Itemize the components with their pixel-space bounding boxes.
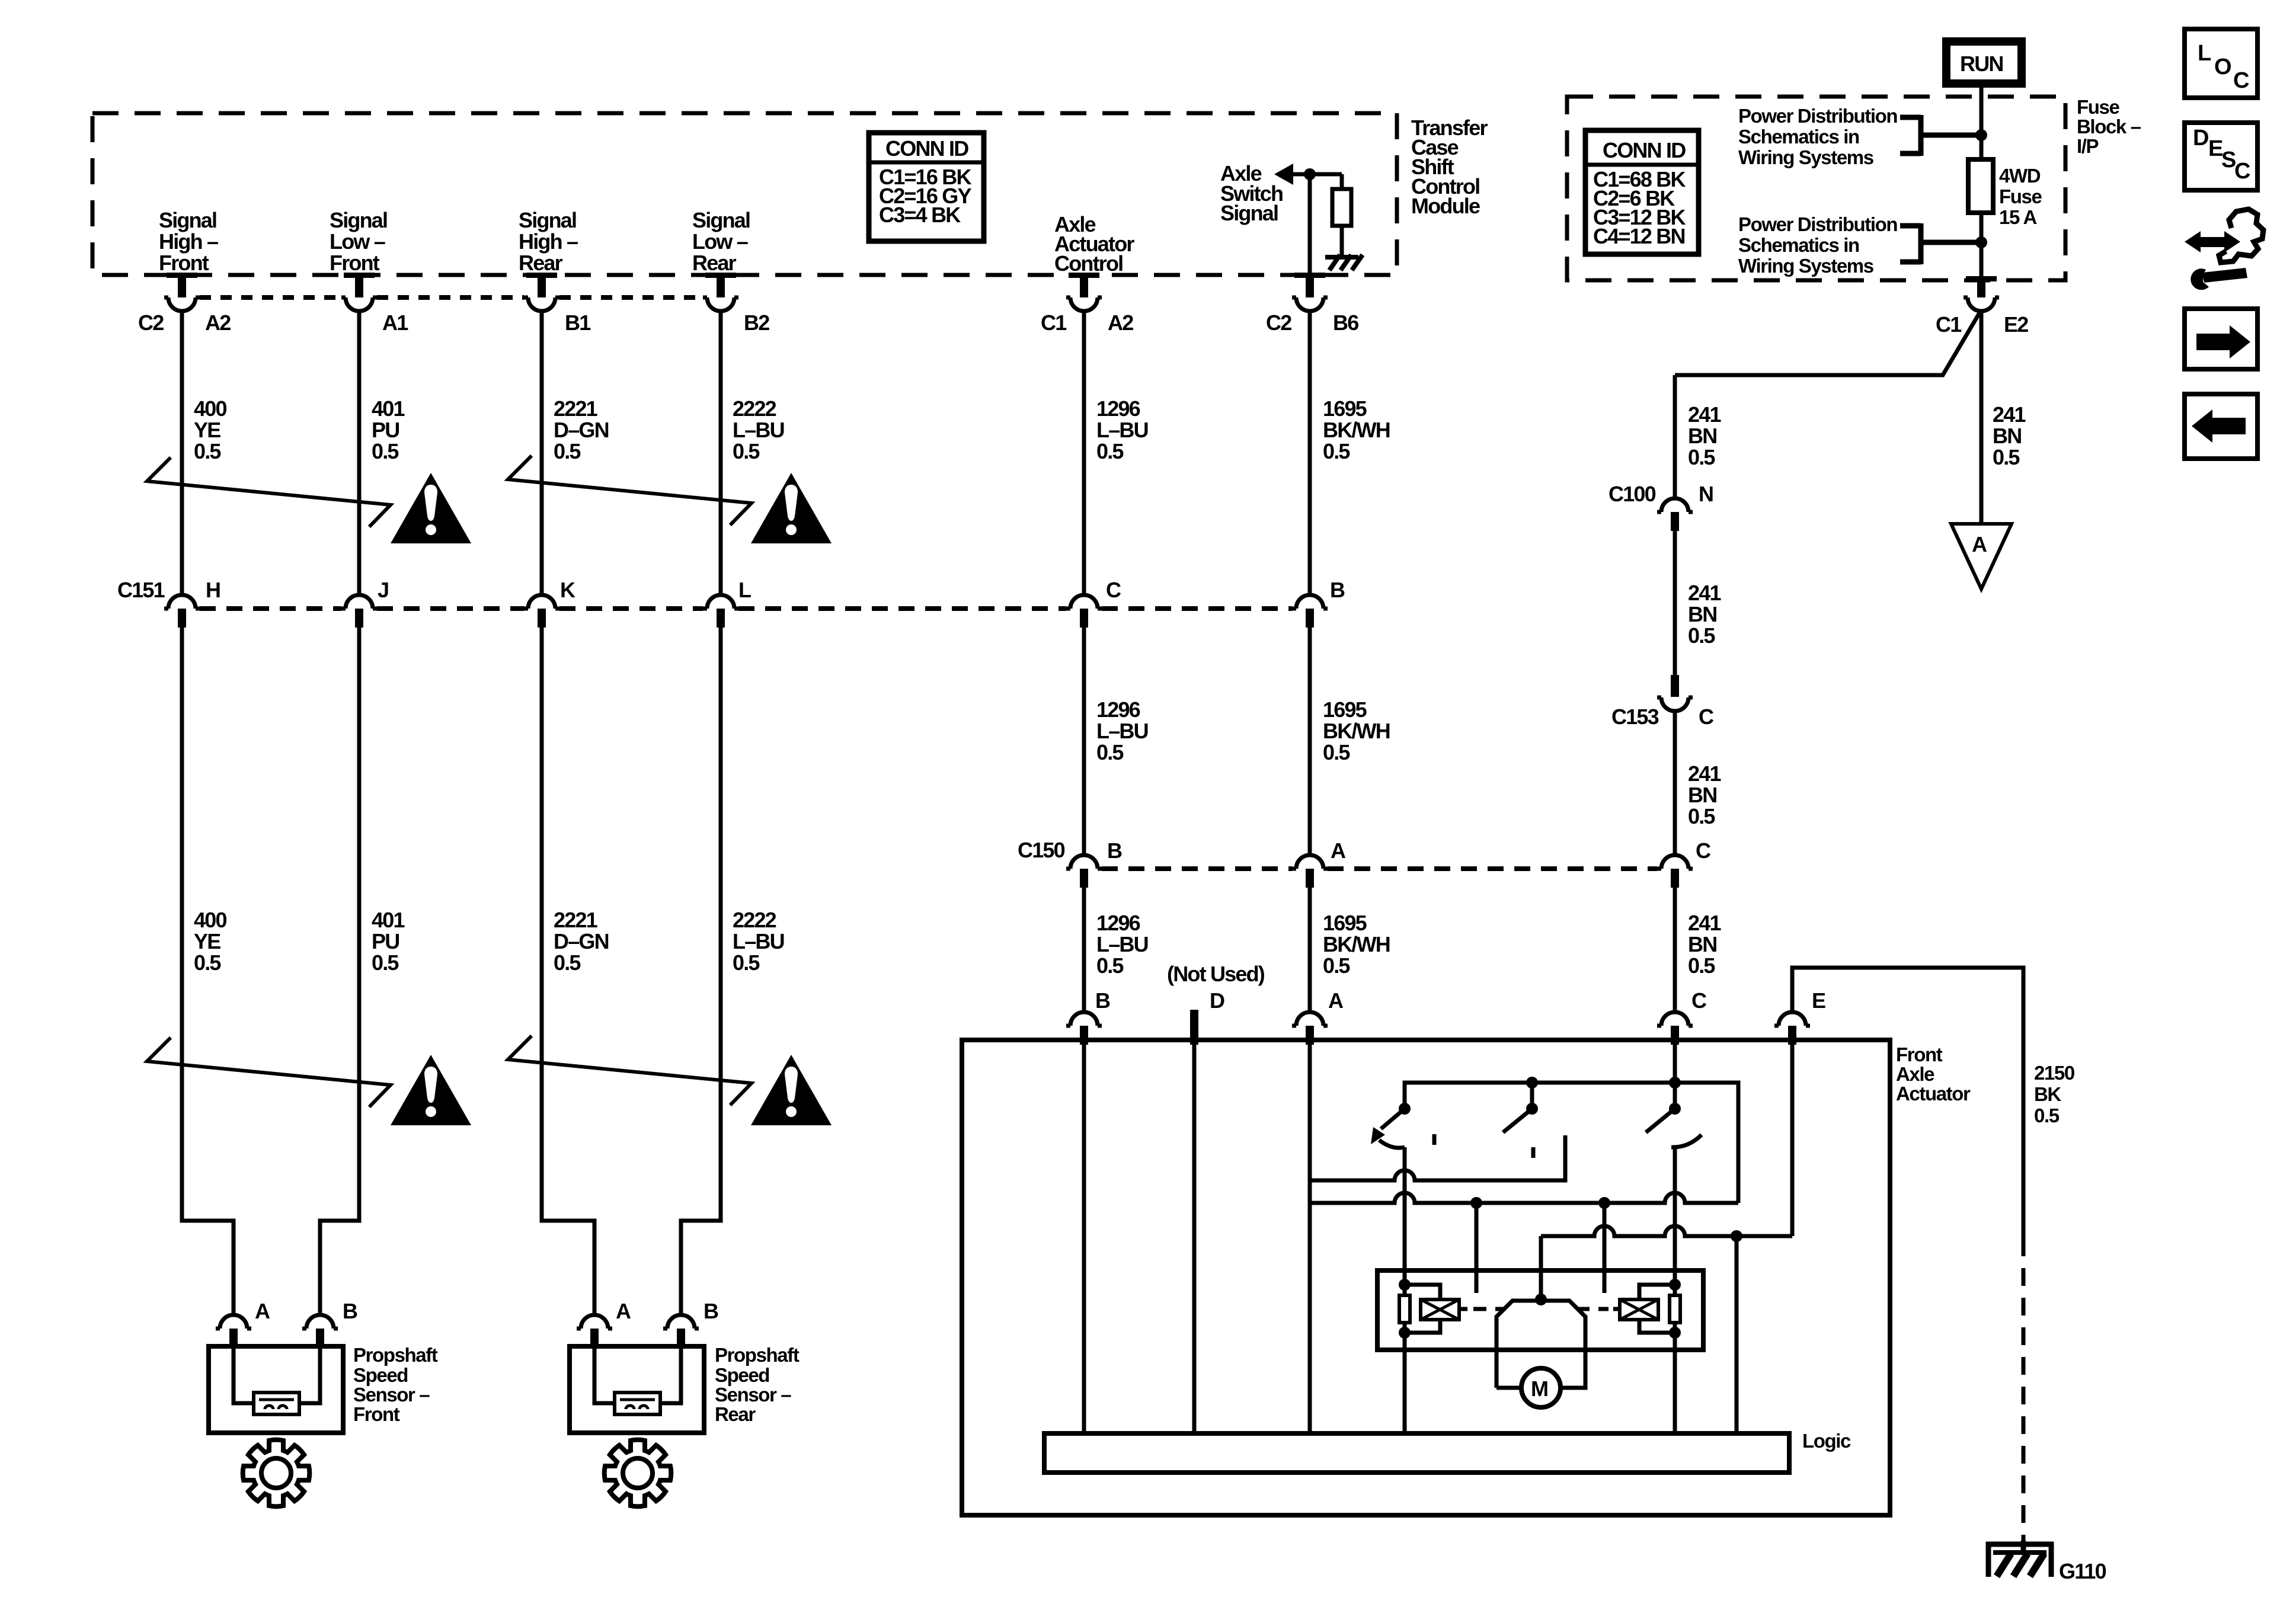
svg-text:1695: 1695 [1323,911,1367,935]
svg-text:C1: C1 [1041,311,1067,335]
svg-text:BN: BN [1688,932,1716,956]
svg-text:D: D [1210,988,1224,1013]
wire: RUN to fuse [1980,84,1984,159]
svg-text:YE: YE [194,418,220,442]
gear (front sensor) [243,1440,310,1507]
wire: C chain from connector to switch3 [1673,1045,1677,1109]
svg-text:A1: A1 [382,311,408,335]
svg-text:B: B [1107,838,1122,863]
warning triangle (upper left) [391,473,471,543]
wire: left solenoid to logic [1403,1333,1407,1433]
label: 4WD Fuse 15 A [1999,165,2042,228]
connector pin A (front sensor) [216,1315,251,1347]
propshaft speed sensor rear box [570,1346,704,1433]
wire: C153 to C150 [1673,711,1677,855]
warning triangle (upper right) [751,473,832,543]
label: 1695 BK/WH 0.5 (bottom) [1323,911,1390,978]
svg-text:PU: PU [372,418,399,442]
svg-text:Schematics in: Schematics in [1738,234,1859,256]
svg-text:Sensor –: Sensor – [715,1384,791,1406]
svg-text:0.5: 0.5 [1323,953,1350,978]
svg-text:Axle: Axle [1896,1063,1934,1085]
svg-text:Front: Front [159,251,209,275]
svg-text:M: M [1531,1377,1547,1401]
switch 2 (blade) [1503,1109,1532,1132]
svg-text:L–BU: L–BU [1096,418,1148,442]
svg-text:BK: BK [2034,1083,2061,1105]
wire: actuator B to logic [1082,1045,1086,1433]
svg-text:0.5: 0.5 [372,439,399,463]
wire w5 mid segment [1082,628,1086,855]
label: Power Distribution Schematics in Wiring Systems (lower) [1738,213,1897,277]
label: 241 BN 0.5 (second) [1688,581,1721,648]
label: Transfer Case Shift Control Module [1411,116,1488,218]
svg-text:L: L [2198,41,2211,66]
label: 1296 L-BU 0.5 (mid) [1096,697,1148,764]
svg-text:N: N [1699,482,1713,506]
svg-text:C: C [1691,988,1707,1013]
transfer case shift control module box [92,113,1397,275]
svg-text:Signal: Signal [159,208,216,232]
C150 row labels [1018,838,1711,863]
svg-text:Rear: Rear [692,251,737,275]
connector C151 pin C (w5) [1066,595,1102,628]
rear sensor internal wires [594,1347,616,1403]
wire: switch1 chain down [1403,1147,1407,1285]
svg-text:Rear: Rear [519,251,563,275]
svg-text:401: 401 [372,908,405,932]
gear hub (rear sensor) [623,1458,653,1488]
right solenoid assembly [1620,1279,1681,1339]
connector C151 pin H (w1) [164,595,200,628]
wire: diagonal from C1 E2 to 241 chain [1675,313,1980,375]
svg-text:BK/WH: BK/WH [1323,719,1390,743]
wire: bus3 branch to logic [1735,1236,1739,1433]
label: Signal Low - Rear [692,208,750,275]
svg-text:C2: C2 [138,311,164,335]
label: Propshaft Speed Sensor - Rear [715,1344,800,1425]
svg-text:Propshaft: Propshaft [353,1344,438,1366]
svg-text:1695: 1695 [1323,697,1367,722]
svg-text:401: 401 [372,396,405,421]
ground G110 [1986,1541,2054,1577]
wire: bus3 (with hops) [1541,1226,1792,1236]
svg-text:2150: 2150 [2034,1062,2074,1084]
wire: resistor to ground [1340,226,1344,256]
svg-text:C: C [2234,159,2250,184]
svg-text:241: 241 [1688,911,1721,935]
svg-text:A2: A2 [205,311,231,335]
connector C150 pin C (w7 241 chain) [1657,855,1693,888]
wire: switch2 feed stub [1530,1083,1534,1109]
icon: LOC box [2185,29,2257,98]
connector C150 pin A (w6) [1292,855,1328,888]
svg-text:2222: 2222 [733,396,776,421]
CONN ID table (fuse block) [1585,130,1699,254]
CONN ID table (module) [869,133,984,241]
wire w2 lower segment with jog to sensor pin B [320,628,359,1315]
svg-text:B: B [1095,988,1110,1013]
svg-text:BN: BN [1688,783,1716,807]
C151 row labels [117,578,1345,602]
C153 labels [1611,705,1714,729]
wire w1 lower segment with jog to sensor pin A [182,628,234,1315]
svg-text:0.5: 0.5 [1688,804,1715,828]
svg-text:C: C [2233,68,2249,93]
wire w7 to actuator C [1673,888,1677,1012]
gear (rear sensor) [605,1440,671,1507]
left solenoid assembly [1399,1279,1459,1339]
svg-text:A: A [1328,988,1344,1013]
svg-text:1296: 1296 [1096,911,1140,935]
svg-text:L–BU: L–BU [1096,719,1148,743]
twisted pair symbol (w1/w2 upper) [147,457,391,527]
gear hub (front sensor) [261,1458,291,1488]
svg-text:0.5: 0.5 [554,439,581,463]
dotted harness line C2 row [200,295,703,300]
dashed harness line C151 [200,606,1292,611]
fuse exit pin letters [1936,312,2028,337]
front sensor element [254,1393,299,1414]
wire w2 upper segment [357,311,362,595]
wire: axle switch signal down [1308,174,1312,274]
label: 241 BN 0.5 (third) [1688,761,1721,828]
svg-text:0.5: 0.5 [733,439,760,463]
label: 1296 L-BU 0.5 (bottom) [1096,911,1148,978]
wire: E2 down to triangle [1980,311,1984,524]
svg-text:CONN ID: CONN ID [885,136,968,161]
actuator pin letters [1095,988,1825,1013]
svg-text:J: J [378,578,388,602]
wire: bus1 with right drop [1405,1083,1738,1203]
wire: C100 to C153 [1673,531,1677,675]
svg-text:C2: C2 [1266,311,1291,335]
svg-text:High –: High – [519,229,578,254]
label: Signal High - Front [159,208,218,275]
svg-text:Rear: Rear [715,1403,756,1425]
svg-text:Sensor –: Sensor – [353,1384,430,1406]
icon: back arrow box [2185,394,2257,459]
svg-text:0.5: 0.5 [1096,439,1124,463]
svg-text:B: B [703,1299,718,1323]
svg-text:Signal: Signal [330,208,387,232]
wire: switch3 feed stub [1673,1083,1677,1109]
svg-text:C: C [1106,578,1121,602]
wire w6 upper segment [1308,311,1312,595]
svg-text:2221: 2221 [554,908,598,932]
connector pin B (actuator) [1066,1012,1102,1045]
front sensor pin letters [255,1299,357,1323]
svg-text:Signal: Signal [692,208,750,232]
svg-text:Block –: Block – [2077,116,2141,137]
ground (module internal) [1325,255,1363,270]
connector C100 pin N [1657,498,1693,531]
svg-text:K: K [560,578,575,602]
svg-text:Control: Control [1054,251,1123,276]
motor M [1521,1368,1560,1407]
svg-text:Power Distribution: Power Distribution [1738,105,1897,127]
logic box [1044,1433,1789,1473]
wire: branch down to resistor [1340,174,1344,189]
svg-text:Front: Front [330,251,380,275]
svg-text:Power Distribution: Power Distribution [1738,213,1897,235]
svg-text:241: 241 [1688,402,1721,427]
svg-text:C1: C1 [1936,312,1962,337]
svg-text:G110: G110 [2059,1559,2106,1583]
RUN box [1946,41,2022,84]
svg-text:Front: Front [353,1403,400,1425]
label: G110 [2059,1559,2106,1583]
wire: arrow to resistor branch [1292,172,1342,177]
label: Signal Low - Front [330,208,387,275]
connector C151 pin B (w6) [1292,595,1328,628]
svg-text:0.5: 0.5 [2034,1105,2060,1126]
svg-text:400: 400 [194,396,226,421]
label: Signal High - Rear [519,208,578,275]
svg-text:Low –: Low – [330,229,385,254]
svg-text:D: D [2193,126,2209,151]
svg-text:BK/WH: BK/WH [1323,932,1390,956]
svg-text:BK/WH: BK/WH [1323,418,1390,442]
svg-text:241: 241 [1688,581,1721,605]
svg-text:0.5: 0.5 [1688,953,1715,978]
svg-text:Logic: Logic [1802,1430,1851,1452]
svg-text:(Not Used): (Not Used) [1167,962,1265,986]
connector pin B (front sensor) [302,1315,338,1347]
label: Propshaft Speed Sensor - Front [353,1344,438,1425]
svg-text:L–BU: L–BU [733,929,784,953]
label: 1695 BK/WH 0.5 (mid) [1323,697,1390,764]
wire: fuse to connector [1980,213,1984,279]
wire: actuator A to logic [1308,1045,1312,1433]
svg-text:L–BU: L–BU [1096,932,1148,956]
label: Fuse Block - I/P [2077,96,2141,157]
connector pin C (actuator) [1657,1012,1693,1045]
svg-text:Propshaft: Propshaft [715,1344,800,1366]
svg-text:Front: Front [1896,1044,1943,1065]
label: 2221 D-GN 0.5 (upper) [554,396,609,463]
svg-text:B2: B2 [744,311,769,335]
label: 2222 L-BU 0.5 (upper) [733,396,784,463]
rear sensor element [615,1393,660,1414]
wire: bus3 to motor [1539,1236,1543,1299]
fuse block I/P dashed box [1567,97,2065,280]
wire w4 upper segment [719,311,723,595]
svg-text:0.5: 0.5 [372,950,399,975]
node: lower tap dot [1975,236,1987,248]
wire: bus2 (with hops) [1310,1193,1738,1203]
svg-text:0.5: 0.5 [194,439,221,463]
connector pin A1 (module exit w2) [341,273,377,311]
svg-text:C151: C151 [117,578,165,602]
label: 400 YE 0.5 (lower) [194,908,226,975]
connector pin B (rear sensor) [663,1315,699,1347]
svg-text:B6: B6 [1333,311,1358,335]
svg-text:0.5: 0.5 [1993,445,2020,469]
label: 2221 D-GN 0.5 (lower) [554,908,609,975]
svg-text:B1: B1 [565,311,591,335]
svg-text:B: B [343,1299,357,1323]
front sensor internal wires [234,1347,255,1403]
wire w5 to actuator B [1082,888,1086,1012]
label: Axle Switch Signal [1220,161,1283,225]
dashed mechanical linkage [1459,1307,1620,1311]
svg-text:15 A: 15 A [1999,206,2036,228]
label: Logic [1802,1430,1851,1452]
connector pin A (rear sensor) [577,1315,612,1347]
icon: repair info (arrows and wrench) [2185,209,2263,290]
connector C1 pin E2 (fuse block exit) [1964,276,1999,311]
svg-text:0.5: 0.5 [733,950,760,975]
connector C151 pin L (w4) [703,595,738,628]
connector pin A (actuator) [1292,1012,1328,1045]
svg-text:Speed: Speed [353,1364,408,1386]
svg-text:A: A [1972,532,1987,556]
motor housing tent [1496,1301,1585,1388]
connector pin letters row [138,311,1358,335]
svg-text:YE: YE [194,929,220,953]
wire w3 lower segment with jog to sensor pin A [542,628,594,1315]
connector C151 pin K (w3) [524,595,559,628]
svg-text:0.5: 0.5 [194,950,221,975]
icon: DESC box [2185,123,2257,190]
label: Axle Actuator Control [1054,212,1134,276]
svg-text:Schematics in: Schematics in [1738,126,1859,148]
svg-text:D–GN: D–GN [554,929,609,953]
switch 3 (blade with curved contact) [1646,1109,1702,1147]
svg-text:Fuse: Fuse [1999,185,2042,207]
connector pin E (actuator) [1774,1012,1810,1045]
svg-text:0.5: 0.5 [1688,623,1715,648]
fuse 4WD 15A [1968,159,1993,213]
svg-text:L: L [738,578,751,602]
svg-text:BN: BN [1688,602,1716,626]
svg-text:BN: BN [1688,424,1716,448]
label: (Not Used) [1167,962,1265,986]
svg-text:C: C [1696,838,1711,863]
svg-text:1296: 1296 [1096,697,1140,722]
connector pin B2 (module exit w4) [703,273,738,311]
wire: E external to ground run [1792,968,2023,1238]
connector C1 pin A2 (module exit w5) [1066,273,1102,311]
svg-text:2222: 2222 [733,908,776,932]
svg-text:PU: PU [372,929,399,953]
svg-text:Low –: Low – [692,229,748,254]
svg-text:I/P: I/P [2077,135,2099,157]
svg-text:A: A [255,1299,270,1323]
svg-text:1695: 1695 [1323,396,1367,421]
svg-text:O: O [2214,55,2232,79]
solenoid block [1377,1270,1703,1350]
connector C150 pin B (w5) [1066,855,1102,888]
svg-text:0.5: 0.5 [554,950,581,975]
svg-text:B: B [1330,578,1345,602]
label: Power Distribution Schematics in Wiring Systems (upper) [1738,105,1897,168]
bracket (upper power distribution) [1900,115,1981,156]
svg-text:C150: C150 [1018,838,1065,862]
wire: actuator D to logic [1192,1045,1197,1433]
wire w5 upper segment [1082,311,1086,595]
twisted pair symbol (w3/w4 lower) [508,1036,752,1105]
label: 1296 L-BU 0.5 (upper) [1096,396,1148,463]
svg-text:C153: C153 [1611,705,1659,729]
wire: dashed ground lead [2022,1238,2026,1541]
svg-text:A: A [616,1299,631,1323]
svg-text:C: C [1699,705,1714,729]
connector C2 pin B6 (module exit w6) [1292,273,1328,311]
wire w6 to actuator A [1308,888,1312,1012]
svg-text:4WD: 4WD [1999,165,2041,187]
svg-text:CONN ID: CONN ID [1603,138,1686,162]
svg-text:Module: Module [1411,194,1480,218]
label: 1695 BK/WH 0.5 (upper) [1323,396,1390,463]
svg-text:Signal: Signal [519,208,576,232]
svg-text:0.5: 0.5 [1096,953,1124,978]
wire w4 lower segment with jog to sensor pin B [681,628,721,1315]
wire: actuator E internal [1790,1045,1795,1236]
wire w6 mid segment [1308,628,1312,855]
warning triangle (lower left) [391,1055,471,1125]
svg-text:A2: A2 [1108,311,1133,335]
svg-text:C100: C100 [1609,482,1656,506]
svg-text:0.5: 0.5 [1323,439,1350,463]
svg-text:Signal: Signal [1220,201,1278,225]
svg-text:0.5: 0.5 [1323,740,1350,764]
label: 401 PU 0.5 (upper) [372,396,405,463]
label: 401 PU 0.5 (lower) [372,908,405,975]
wire: bus2 stub right [1603,1203,1607,1293]
svg-text:E2: E2 [2004,312,2028,337]
label: Front Axle Actuator [1896,1044,1971,1105]
circuit reference triangle A [1951,524,2012,589]
icon: forward arrow box [2185,309,2257,369]
dashed harness line C150 [1102,866,1657,871]
node: axle switch junction dot [1304,168,1316,180]
connector C2 pin A2 (module exit w1) [164,273,200,311]
label: 241 BN 0.5 (above actuator) [1688,911,1721,978]
junction dots (switch network) [1399,1077,1742,1305]
label: 241 BN 0.5 (E2 branch) [1993,402,2026,469]
svg-text:H: H [206,578,220,602]
wire: right solenoid to logic [1673,1333,1677,1433]
svg-text:C3=4 BK: C3=4 BK [879,203,961,227]
axle switch signal arrow [1274,164,1293,185]
node: upper tap dot [1975,129,1987,141]
label: 400 YE 0.5 (upper) [194,396,226,463]
svg-text:1296: 1296 [1096,396,1140,421]
svg-text:0.5: 0.5 [1096,740,1124,764]
rear sensor pin letters [616,1299,718,1323]
svg-text:241: 241 [1688,761,1721,786]
C100 labels [1609,482,1713,506]
svg-text:400: 400 [194,908,226,932]
warning triangle (lower right) [751,1055,832,1125]
wire w3 upper segment [540,311,544,595]
switch 1 open contact stub [1432,1134,1437,1145]
label: 241 BN 0.5 (top of chain) [1688,402,1721,469]
svg-text:RUN: RUN [1960,52,2003,76]
svg-text:2221: 2221 [554,396,598,421]
twisted pair symbol (w3/w4 upper) [508,456,752,525]
connector C151 pin J (w2) [341,595,377,628]
label: 2150 BK 0.5 [2034,1062,2074,1126]
connector C153 pin C [1657,675,1693,711]
svg-text:BN: BN [1993,424,2021,448]
switch 2 open contact stub [1531,1147,1536,1158]
label: 2222 L-BU 0.5 (lower) [733,908,784,975]
svg-text:Fuse: Fuse [2077,96,2119,118]
wire: 241 chain to C100 [1673,375,1677,498]
